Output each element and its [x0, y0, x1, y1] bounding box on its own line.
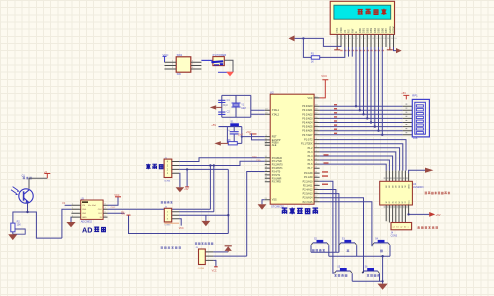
svg-text:10uF: 10uF [238, 133, 244, 136]
svg-text:DB2: DB2 [365, 27, 369, 33]
svg-text:1K: 1K [311, 59, 314, 63]
LCD data bus vertical wires to P0 [356, 47, 382, 135]
P1 red net label dashes [324, 154, 329, 164]
junction on +5 wire [302, 37, 304, 39]
power-up symbol on pin1 wire [225, 246, 232, 252]
resistor R3 (reset pulldown) [227, 139, 242, 145]
svg-text:P0.6/AD6: P0.6/AD6 [302, 130, 313, 133]
svg-text:RS: RS [347, 29, 351, 33]
IR sensor connector J3 [195, 247, 205, 270]
P2 red net label stubs (P2.0 P2.1 P2.3) [322, 171, 328, 185]
power port arrow right (ULN COM) [425, 168, 433, 173]
svg-text:1: 1 [338, 38, 340, 40]
S5 label 平均升温 [334, 274, 347, 277]
svg-text:AD: AD [82, 225, 92, 234]
svg-text:VSS: VSS [335, 28, 339, 33]
svg-text:P0.1/AD1: P0.1/AD1 [302, 109, 313, 112]
svg-text:30pF: 30pF [223, 104, 229, 107]
reset button S1 [219, 121, 242, 144]
svg-text:P2.0/A8: P2.0/A8 [304, 172, 313, 175]
RST wire to MCU [242, 136, 265, 138]
svg-text:CON3: CON3 [164, 225, 171, 227]
svg-text:RW: RW [350, 28, 354, 33]
resistor pack RP1 [412, 94, 429, 140]
resistor pack pin stubs [403, 106, 413, 135]
svg-text:C1: C1 [227, 99, 231, 102]
svg-text:P0.2/AD2: P0.2/AD2 [302, 113, 313, 116]
MCU title 单片机模块 [282, 207, 318, 214]
svg-text:P2.5/A13: P2.5/A13 [303, 193, 314, 196]
transformer T1 (power entry) [176, 53, 191, 76]
J2 pin2 wire [179, 214, 228, 216]
svg-text:9: 9 [368, 38, 370, 40]
svg-text:Vcc Vref: Vcc Vref [88, 204, 96, 207]
svg-text:XTAL1: XTAL1 [272, 109, 280, 112]
Q1 collector wire to +5 [29, 178, 47, 189]
ADC CLK wire [108, 208, 211, 210]
ground power port left of crystal [210, 105, 222, 109]
svg-text:P0.5/AD5: P0.5/AD5 [302, 126, 313, 129]
P0 bus wires MCU to resistor pack [320, 106, 403, 135]
svg-text:7: 7 [361, 38, 363, 40]
junctions on pin3 wire [209, 164, 211, 166]
CON4 wire pin3 to MCU P3.1 [179, 161, 265, 165]
svg-text:P1.6: P1.6 [308, 163, 314, 166]
programming connector J1 CON4 [164, 157, 172, 182]
J3 pin2 wire to long riser [213, 255, 246, 257]
J3 pin1 wire [213, 251, 228, 253]
ground arrow hanging from pin2 wire [202, 215, 211, 226]
svg-text:P0.0/AD0: P0.0/AD0 [302, 105, 313, 108]
svg-text:C2: C2 [227, 111, 231, 114]
svg-text:CS: CS [62, 203, 66, 205]
stray wire loop right of R2 [13, 229, 25, 234]
P2 wires to buttons [320, 181, 373, 273]
wire +5V feed to LCD pin2 [295, 38, 341, 47]
CS net label stub [62, 203, 71, 206]
svg-text:ALE: ALE [272, 144, 277, 147]
crystal circuit wires [222, 95, 265, 117]
svg-text:GND: GND [408, 184, 410, 189]
svg-text:16: 16 [394, 38, 397, 40]
svg-text:VSS: VSS [272, 199, 277, 202]
+5V drop from pin2 wire [184, 169, 189, 191]
wire transformer to power switch [201, 59, 213, 61]
ground power port left of resistor R3 [214, 141, 228, 145]
svg-text:ULN2003: ULN2003 [413, 186, 424, 189]
ground symbol under MCU VSS [258, 200, 267, 210]
Q1 label 光敏管 [23, 177, 32, 180]
svg-text:10K: 10K [227, 139, 232, 142]
svg-text:8: 8 [364, 38, 366, 40]
J2 pin stubs [172, 212, 179, 219]
ADC ground [66, 217, 75, 227]
svg-text:P1.4: P1.4 [308, 155, 314, 158]
svg-text:DO: DO [99, 213, 103, 215]
IR input connector J2 [164, 207, 171, 227]
svg-text:R1: R1 [311, 52, 315, 56]
programming port label 烧录口 [146, 164, 163, 170]
svg-text:P2.6/A14: P2.6/A14 [303, 197, 314, 200]
svg-text:J4: J4 [391, 233, 394, 235]
svg-text:XTAL2: XTAL2 [272, 113, 280, 116]
svg-text:CON5: CON5 [391, 235, 398, 237]
J3 pin stubs [205, 252, 213, 261]
MCU pin stubs left [265, 110, 270, 200]
svg-text:10K: 10K [17, 224, 22, 227]
long riser from MCU P3.4 [247, 172, 265, 257]
IR sensor label 红外线传感器 [195, 242, 213, 245]
ADC pin stubs [71, 205, 107, 217]
crystal Y1 [232, 95, 246, 117]
svg-text:VCC: VCC [321, 74, 327, 78]
capacitor C2 [218, 111, 230, 115]
svg-text:DB7: DB7 [384, 27, 388, 33]
MCU pin stubs right [314, 98, 320, 202]
ADC VCC pin wire and port [108, 194, 122, 205]
phototransistor Q1 [19, 189, 33, 203]
svg-text:VDD: VDD [339, 27, 343, 33]
svg-text:10K: 10K [413, 136, 418, 140]
MCU internal pin labels left [272, 109, 283, 202]
red net labels on P0 bus [334, 104, 337, 134]
svg-text:S1: S1 [231, 121, 235, 124]
svg-text:P1.3: P1.3 [308, 151, 314, 154]
svg-text:P2.4/A12: P2.4/A12 [303, 189, 314, 192]
J2 pin1 wire to riser [179, 211, 214, 213]
COM riser wire to power arrow [409, 170, 425, 173]
button S4 (decrease 减) [372, 239, 390, 257]
LCD pin name labels (vertical, inside body) [335, 26, 395, 33]
svg-text:+5V: +5V [436, 213, 441, 217]
button S2 (power on/off) [311, 239, 329, 257]
resistor R1 (LCD contrast) [311, 52, 320, 64]
AD module title AD模块 [82, 225, 106, 234]
ground arrow below CON4 [176, 187, 185, 192]
junction dots data bus on P0 [355, 105, 384, 136]
svg-text:+5V: +5V [121, 212, 126, 215]
LCD title text 显示模块 [358, 9, 387, 15]
bottom row common wire [352, 280, 382, 282]
MCU internal pin labels right [301, 97, 313, 204]
capacitor C3 (electrolytic, reset) [228, 127, 256, 144]
vertical wire CLK riser [209, 166, 211, 210]
ground arrow below buttons [378, 284, 388, 290]
svg-text:P1.1/T2EX: P1.1/T2EX [301, 143, 313, 146]
wire loop power switch output [218, 60, 233, 72]
svg-text:GND: GND [82, 217, 87, 219]
svg-text:P0.3/AD3: P0.3/AD3 [302, 117, 313, 120]
svg-text:P3.7/RD: P3.7/RD [272, 181, 281, 184]
svg-text:DB1: DB1 [362, 27, 366, 33]
wire junction down to contrast resistor [303, 38, 311, 57]
CON4 wire pin1 to ground [178, 173, 181, 187]
CON4 wire pin2 [179, 168, 228, 170]
svg-text:RXD: RXD [252, 156, 257, 158]
svg-text:U2: U2 [270, 90, 274, 94]
power switch S7 [211, 53, 226, 66]
ground bar on LCD pin1 [334, 47, 340, 50]
svg-text:P2.1/A9: P2.1/A9 [304, 176, 313, 179]
+5 power port above Q1 [44, 171, 50, 178]
svg-text:LEDK: LEDK [392, 26, 396, 33]
svg-text:CLK: CLK [111, 207, 116, 209]
svg-text:VCC: VCC [212, 269, 217, 272]
LCD pin numbers [338, 38, 398, 40]
svg-text:CON3: CON3 [198, 268, 205, 270]
ground below R2 [8, 232, 17, 240]
ADC pin numbers [72, 204, 107, 218]
svg-text:CON4: CON4 [164, 180, 171, 182]
wire stubs LCD pins 4,5 [349, 47, 353, 57]
button S5 [335, 267, 353, 282]
svg-text:DB0: DB0 [358, 27, 362, 33]
svg-text:ADC0832: ADC0832 [81, 220, 93, 224]
J2 pin3 wire to VCC [179, 219, 184, 230]
svg-text:11M: 11M [241, 107, 245, 110]
red label 步进电机接口 [418, 226, 438, 229]
IR input connector label 红外输入 [161, 201, 173, 204]
svg-text:V0: V0 [343, 29, 347, 33]
svg-text:CLK: CLK [98, 209, 103, 211]
svg-text:P0.7/AD7: P0.7/AD7 [302, 134, 313, 137]
svg-text:DB4: DB4 [373, 27, 377, 33]
resistor pack pin number marks [406, 104, 408, 134]
red net labels under LCD pins [340, 50, 384, 51]
EA tied high wire + label [246, 130, 265, 140]
button S3 (increase 加) [339, 239, 357, 257]
power port arrow left of LCD (+5V feed) [289, 35, 295, 41]
ground stem from buttons [382, 256, 384, 283]
svg-text:6: 6 [357, 38, 359, 40]
svg-text:DB5: DB5 [377, 27, 381, 33]
svg-text:P1.5: P1.5 [308, 159, 314, 162]
svg-text:P2.3/A11: P2.3/A11 [303, 184, 313, 187]
wire resistor to LCD pin3 [320, 47, 345, 57]
button S6 [362, 267, 380, 282]
red label 步进电机驱动芯片 [425, 192, 451, 195]
+5V power port above resistor pack [401, 91, 409, 99]
svg-text:3: 3 [346, 38, 348, 40]
svg-text:P1 POWER: P1 POWER [213, 53, 227, 57]
capacitor C1 [218, 99, 230, 107]
ULN2003 chip U4 [380, 181, 424, 205]
transformer pins [165, 62, 202, 69]
S2 label 开关电源 [312, 249, 325, 252]
wire LCD pin16 to power arrow [394, 47, 397, 51]
long bottom wire to +5V stub [121, 212, 228, 233]
vertical wire CON3 pin1 riser [213, 166, 215, 212]
svg-text:VCC: VCC [114, 194, 119, 197]
power port arrow right of LCD [396, 48, 402, 53]
svg-text:+5V: +5V [246, 130, 251, 134]
svg-text:P0.4/AD4: P0.4/AD4 [302, 122, 313, 125]
S2 lower-left horizontal wire [311, 251, 339, 253]
svg-text:5: 5 [353, 38, 355, 40]
svg-text:TXD: TXD [256, 160, 261, 162]
svg-text:+5V: +5V [184, 188, 189, 191]
wire ULN VCC pin to +5V arrow [409, 213, 430, 215]
ground bar on LCD pin15 [387, 47, 393, 50]
LCD display module U1 [330, 1, 394, 34]
svg-text:P1.7: P1.7 [308, 167, 314, 170]
S6 label 平均降温 [367, 274, 380, 277]
svg-text:+5V: +5V [211, 123, 216, 127]
ADC chip U3 [81, 198, 103, 224]
svg-text:DB3: DB3 [369, 27, 373, 33]
buttons common bus wire [329, 255, 390, 257]
svg-text:P2.2/A10: P2.2/A10 [303, 180, 314, 183]
Q1 emitter node wiring [13, 203, 72, 238]
LCD pins 1-16 [337, 34, 393, 47]
svg-text:4: 4 [349, 38, 351, 40]
light arrows into Q1 [11, 187, 19, 195]
vertical wire long drop x228 [227, 169, 229, 233]
CON4 wire pin4 to MCU P3.0 [179, 158, 265, 162]
ULN2003 bottom pin stubs [386, 205, 408, 223]
svg-text:VCC: VCC [307, 97, 312, 100]
microcontroller U2 body [270, 90, 314, 208]
svg-text:LEDA: LEDA [388, 26, 392, 33]
red net labels near MCU P3.0/P3.1 [252, 156, 261, 162]
svg-text:+5V: +5V [401, 91, 406, 95]
P1 wires MCU to ULN2003 inputs [320, 140, 406, 171]
MCU pin numbers [265, 96, 319, 202]
junction at emitter node [26, 211, 28, 213]
svg-text:E: E [354, 31, 358, 33]
svg-text:SW1: SW1 [177, 53, 183, 57]
label 红外光电开关 [161, 246, 181, 249]
ADC DO wire + label [108, 212, 125, 214]
transformer pin numbers [172, 60, 194, 69]
orange wire stub under J2 [164, 222, 179, 224]
CON4 pin stubs [172, 162, 179, 174]
resistor R2 (photo divider) [11, 221, 21, 232]
svg-text:c: c [408, 227, 409, 229]
power flow arrow (red) [226, 72, 234, 77]
svg-text:VCC: VCC [408, 200, 410, 205]
ULN pin number marks [384, 178, 408, 208]
svg-text:P1.0/T2: P1.0/T2 [304, 139, 313, 142]
svg-text:SW: SW [177, 72, 182, 76]
+5V power arrow right of ULN [429, 212, 441, 217]
svg-text:VCC: VCC [179, 227, 184, 230]
ULN2003 top pin stubs [386, 171, 408, 182]
VCC power port above MCU pin40 [320, 74, 329, 98]
J3 pin3 wire to VCC [212, 260, 218, 272]
stepper connector CON5 [391, 223, 412, 238]
svg-text:P1.2: P1.2 [308, 147, 314, 150]
svg-text:DB6: DB6 [380, 27, 384, 33]
VCC power port (top-left power entry) [163, 53, 169, 62]
svg-text:RP1: RP1 [412, 94, 418, 98]
svg-text:P2.7/A15: P2.7/A15 [303, 201, 314, 204]
svg-text:2: 2 [342, 38, 344, 40]
